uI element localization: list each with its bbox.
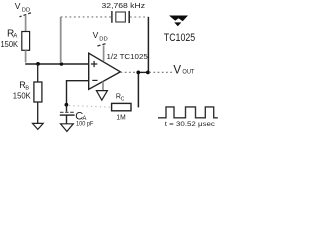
op-amp minus mark	[92, 79, 97, 81]
supply tick (op-amp VDD, dashed)	[96, 44, 105, 46]
resistor RA	[22, 32, 30, 51]
svg-text:t = 30.52 μsec: t = 30.52 μsec	[165, 121, 216, 128]
svg-text:DD: DD	[99, 37, 107, 43]
svg-text:V: V	[15, 1, 21, 11]
svg-text:32,768 kHz: 32,768 kHz	[102, 1, 146, 10]
svg-text:OUT: OUT	[182, 68, 194, 75]
label RA	[7, 28, 17, 39]
label RC	[116, 94, 125, 103]
svg-text:C: C	[121, 97, 125, 103]
capacitor CA bottom plate	[60, 114, 75, 116]
svg-text:1/2 TC1025: 1/2 TC1025	[107, 52, 148, 61]
label CA	[75, 111, 86, 123]
resistor RB	[34, 82, 42, 102]
wire minus node to RC (light dashed)	[69, 106, 112, 108]
logo TelCom (double triangle)	[169, 16, 188, 22]
svg-text:V: V	[93, 30, 99, 40]
svg-text:TC1025: TC1025	[164, 32, 195, 44]
power VDD (left rail)	[15, 1, 30, 13]
wire node to CA	[66, 105, 68, 112]
ground (op-amp)	[96, 91, 107, 101]
op-amp U1 (1/2 TC1025) triangle	[89, 53, 121, 89]
logo TelCom (small triangle)	[174, 22, 181, 26]
wire VDD to RA (gray)	[25, 16, 27, 32]
wire crystal left (dashed horizontal)	[61, 16, 112, 18]
node junction dot (crystal tap)	[146, 71, 150, 75]
svg-text:150K: 150K	[13, 91, 31, 101]
wire node to VOUT (dashed)	[149, 71, 172, 73]
wire CA to ground	[66, 115, 68, 124]
wire RB to ground	[37, 102, 39, 123]
svg-text:150K: 150K	[1, 39, 19, 49]
wire output node segment	[137, 71, 150, 73]
svg-text:100 pF: 100 pF	[76, 121, 94, 127]
ground stub (op-amp, gray)	[102, 82, 104, 91]
label RB	[19, 80, 29, 92]
resistor RC	[112, 103, 131, 110]
wire minus input	[67, 81, 89, 105]
wire RA bottom to plus-input line (gray then black)	[25, 50, 27, 62]
waveform square wave	[158, 107, 218, 118]
node junction dot (RC tap)	[136, 71, 140, 75]
wire node down to RB	[37, 64, 39, 82]
wire crystal right (dashed horizontal)	[130, 16, 148, 18]
crystal X1 body	[116, 12, 126, 22]
crystal X1 left plate	[111, 11, 113, 23]
label VOUT	[173, 65, 194, 77]
capacitor CA top plate (dashed)	[60, 111, 74, 113]
node junction dot (RA/RB divider)	[36, 62, 40, 66]
ground (below CA)	[61, 124, 74, 132]
node junction dot (crystal to + input)	[60, 62, 64, 66]
crystal X1 right plate	[128, 11, 130, 23]
wire crystal left vertical (gray)	[60, 17, 62, 63]
op-amp plus mark	[91, 61, 97, 67]
wire plus-input line	[25, 63, 88, 65]
svg-text:1M: 1M	[116, 113, 125, 122]
wire RC right terminal up to output node	[137, 72, 139, 107]
ground (below RB)	[33, 123, 44, 129]
power VDD (op-amp)	[93, 30, 108, 42]
node junction dot (CA / RC / minus input)	[65, 103, 69, 107]
supply tick (left VDD, dashed)	[20, 13, 32, 17]
wire op-amp output to node (dashed)	[121, 71, 137, 73]
wire VDD to op-amp top (gray)	[103, 46, 105, 61]
svg-text:V: V	[173, 65, 181, 77]
wire crystal right vertical down to output node	[147, 17, 149, 72]
svg-text:DD: DD	[22, 7, 30, 13]
